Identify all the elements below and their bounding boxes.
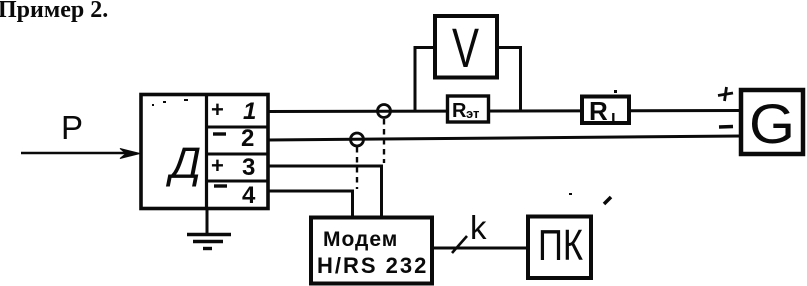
node junction on wire 2 <box>351 133 364 146</box>
resistor Rэт <box>448 96 489 122</box>
svg-text:V: V <box>452 16 479 79</box>
svg-text:+: + <box>211 153 224 178</box>
PC box <box>528 217 591 279</box>
svg-text:Н/RS 232: Н/RS 232 <box>317 253 428 278</box>
detector block D (Д) outline <box>141 95 268 209</box>
svg-text:R: R <box>589 96 608 126</box>
wire terminal3 down to modem <box>268 166 382 217</box>
terminal row separator 1/2 <box>207 126 269 129</box>
bus tick mark <box>452 236 467 253</box>
label R1 <box>589 96 616 126</box>
polarity - at G <box>719 125 733 129</box>
ground symbol <box>187 235 231 249</box>
wire terminal2 to G minus <box>268 136 741 140</box>
terminal row separator 3/4 <box>207 180 269 183</box>
scan speckles <box>152 90 617 195</box>
wire terminal1 to G plus (main top wire) <box>268 111 741 112</box>
terminal row separator 2/3 <box>207 153 269 156</box>
modem box <box>311 218 432 284</box>
stray pen mark <box>604 197 611 204</box>
svg-text:2: 2 <box>241 125 254 152</box>
pin 2 polarity - <box>213 132 226 135</box>
wire voltmeter right lead <box>497 48 521 112</box>
node junction on wire 1 <box>378 105 391 118</box>
voltmeter V box <box>435 16 497 78</box>
dashed tap wire from node 1 <box>383 119 385 163</box>
svg-text:Пример 2.: Пример 2. <box>0 0 108 23</box>
wire voltmeter left lead <box>415 48 435 112</box>
label Rэт <box>452 100 479 122</box>
polarity + at G <box>718 87 733 101</box>
svg-text:G: G <box>749 92 795 155</box>
svg-text:R: R <box>452 100 467 122</box>
dashed tap wire from node 2 <box>356 147 358 189</box>
svg-text:Д: Д <box>165 139 201 188</box>
svg-text:эт: эт <box>466 106 479 121</box>
wire modem to PC <box>432 247 528 250</box>
wire terminal4 down to modem <box>268 191 353 217</box>
divider between Д and terminal column <box>205 95 208 209</box>
svg-text:1: 1 <box>243 98 256 125</box>
svg-text:+: + <box>211 97 224 122</box>
svg-text:ПК: ПК <box>538 221 583 270</box>
pin 4 polarity - <box>214 184 227 187</box>
resistor R1 <box>582 97 629 124</box>
svg-text:k: k <box>470 209 487 246</box>
svg-text:P: P <box>61 109 83 146</box>
svg-text:ι: ι <box>611 107 616 126</box>
ground stub wire <box>206 209 209 235</box>
svg-text:Модем: Модем <box>323 228 398 251</box>
generator G box <box>741 90 803 154</box>
wire input arrow P <box>21 149 140 159</box>
svg-text:4: 4 <box>242 182 256 209</box>
svg-text:3: 3 <box>242 154 255 181</box>
